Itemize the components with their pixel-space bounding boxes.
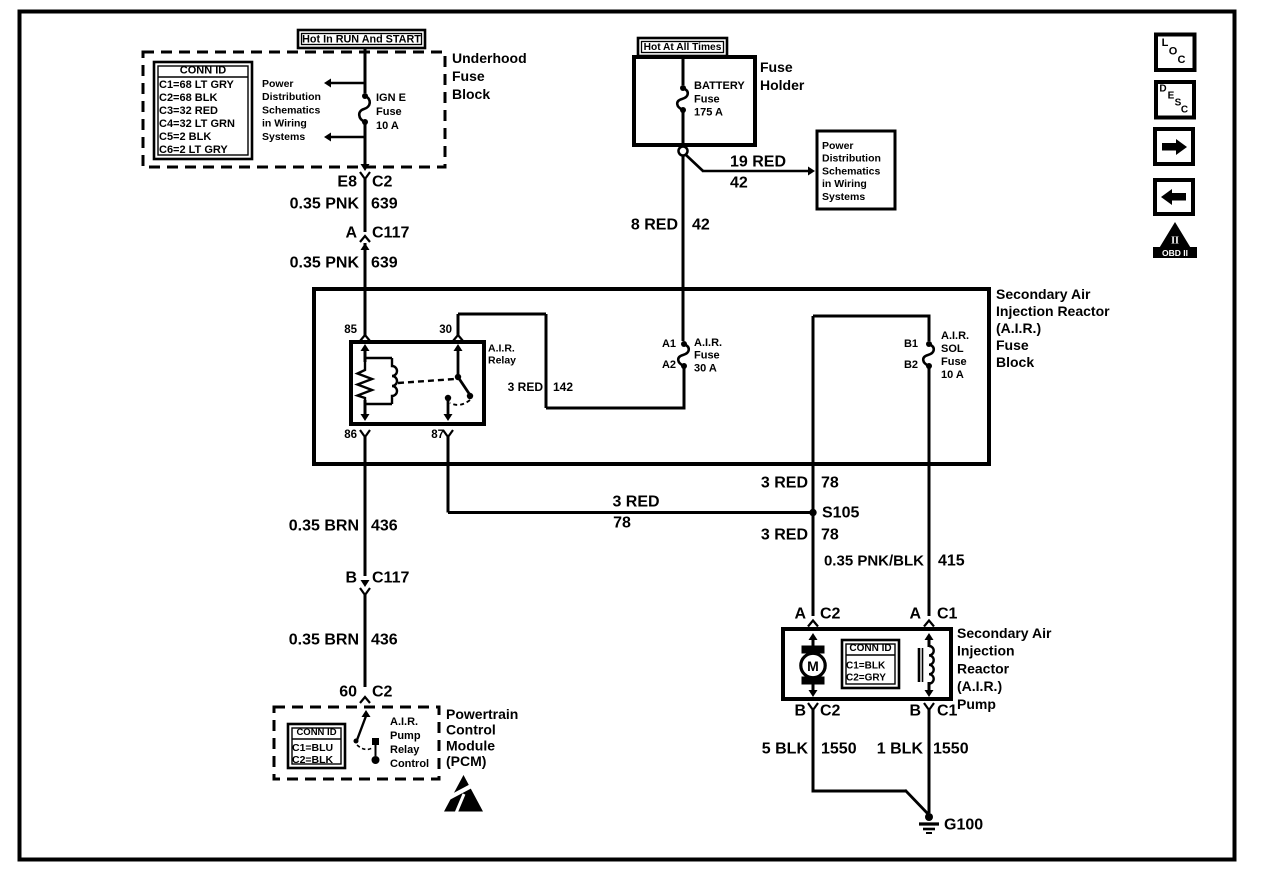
svg-text:Reactor: Reactor [957,660,1010,676]
svg-text:C: C [1181,105,1188,116]
svg-text:3 RED: 3 RED [612,494,659,511]
svg-text:Block: Block [452,86,490,102]
svg-text:A: A [909,606,921,623]
svg-text:B: B [794,703,806,720]
svg-text:3 RED: 3 RED [761,475,808,492]
svg-text:Fuse: Fuse [941,356,967,368]
svg-text:A.I.R.: A.I.R. [694,337,722,349]
svg-text:A.I.R.: A.I.R. [941,330,969,342]
svg-text:IGN E: IGN E [376,92,406,104]
svg-text:436: 436 [371,632,398,649]
svg-text:C2: C2 [372,684,393,701]
svg-text:10 A: 10 A [941,369,964,381]
svg-text:C2: C2 [820,606,841,623]
svg-text:CONN ID: CONN ID [180,65,227,77]
svg-text:C2=68 BLK: C2=68 BLK [159,92,217,104]
svg-text:5 BLK: 5 BLK [762,741,809,758]
svg-text:C1=BLK: C1=BLK [846,661,886,672]
svg-text:142: 142 [553,380,573,394]
svg-text:639: 639 [371,196,398,213]
svg-text:Fuse: Fuse [694,93,720,105]
svg-text:Hot In RUN And START: Hot In RUN And START [302,34,421,46]
svg-text:Block: Block [996,354,1034,370]
svg-text:0.35 BRN: 0.35 BRN [289,518,359,535]
svg-text:BATTERY: BATTERY [694,80,745,92]
svg-text:(A.I.R.): (A.I.R.) [996,320,1041,336]
svg-text:Pump: Pump [957,696,996,712]
svg-text:C1=68 LT GRY: C1=68 LT GRY [159,79,235,91]
svg-text:Fuse: Fuse [376,106,402,118]
svg-text:C6=2 LT GRY: C6=2 LT GRY [159,144,228,156]
svg-text:639: 639 [371,255,398,272]
svg-text:A: A [794,606,806,623]
svg-text:Secondary Air: Secondary Air [996,286,1091,302]
svg-text:E8: E8 [337,174,357,191]
svg-text:86: 86 [344,429,357,441]
svg-text:Control: Control [390,758,429,770]
svg-text:A.I.R.: A.I.R. [488,343,515,355]
svg-text:C2: C2 [820,703,841,720]
svg-text:C2=GRY: C2=GRY [846,673,886,684]
svg-text:175 A: 175 A [694,107,723,119]
svg-text:CONN ID: CONN ID [296,727,336,738]
svg-text:C117: C117 [372,570,409,587]
svg-text:S105: S105 [822,505,859,522]
svg-text:Power: Power [822,140,854,152]
svg-text:O: O [1169,46,1178,58]
svg-text:A: A [345,225,357,242]
svg-text:C3=32 RED: C3=32 RED [159,105,218,117]
svg-text:A.I.R.: A.I.R. [390,716,418,728]
svg-text:Schematics: Schematics [262,104,321,116]
svg-text:19 RED: 19 RED [730,154,786,171]
svg-text:1 BLK: 1 BLK [877,741,924,758]
svg-text:C1=BLU: C1=BLU [292,742,333,754]
svg-text:3 RED: 3 RED [761,527,808,544]
svg-text:in Wiring: in Wiring [262,118,307,130]
svg-text:Schematics: Schematics [822,165,881,177]
svg-text:Module: Module [446,737,495,753]
svg-text:42: 42 [692,217,710,234]
svg-text:42: 42 [730,175,748,192]
svg-text:78: 78 [821,475,839,492]
svg-text:Hot At All Times: Hot At All Times [644,42,722,53]
svg-text:OBD II: OBD II [1162,248,1188,258]
svg-text:Fuse: Fuse [452,68,485,84]
svg-text:60: 60 [339,684,357,701]
svg-text:II: II [1171,236,1179,247]
svg-text:87: 87 [431,429,444,441]
svg-text:E: E [1168,91,1175,102]
svg-text:B1: B1 [904,338,918,350]
svg-text:436: 436 [371,518,398,535]
svg-text:in Wiring: in Wiring [822,178,867,190]
svg-text:C5=2 BLK: C5=2 BLK [159,131,211,143]
svg-text:B: B [345,570,357,587]
svg-text:CONN ID: CONN ID [849,643,891,654]
svg-text:C2: C2 [372,174,393,191]
svg-text:8 RED: 8 RED [631,217,678,234]
svg-text:Fuse: Fuse [694,350,720,362]
svg-text:Relay: Relay [488,355,516,367]
svg-text:1550: 1550 [933,741,969,758]
svg-text:(PCM): (PCM) [446,753,486,769]
svg-text:10 A: 10 A [376,120,399,132]
svg-text:(A.I.R.): (A.I.R.) [957,678,1002,694]
svg-text:SOL: SOL [941,343,964,355]
svg-text:Pump: Pump [390,730,421,742]
svg-text:1550: 1550 [821,741,857,758]
svg-text:Systems: Systems [822,191,865,203]
svg-text:Holder: Holder [760,77,805,93]
svg-text:78: 78 [613,515,631,532]
svg-text:C1: C1 [937,703,958,720]
svg-text:L: L [1162,37,1169,49]
svg-text:0.35 PNK/BLK: 0.35 PNK/BLK [824,553,924,570]
svg-text:G100: G100 [944,817,983,834]
svg-text:B2: B2 [904,359,918,371]
svg-text:0.35 PNK: 0.35 PNK [290,196,360,213]
svg-text:Relay: Relay [390,744,420,756]
svg-text:Distribution: Distribution [822,153,881,165]
svg-text:Power: Power [262,78,294,90]
svg-text:B: B [909,703,921,720]
svg-text:M: M [807,658,819,674]
svg-text:30: 30 [439,324,452,336]
svg-text:415: 415 [938,553,965,570]
svg-text:Secondary Air: Secondary Air [957,625,1052,641]
svg-text:Underhood: Underhood [452,50,527,66]
svg-text:Fuse: Fuse [996,337,1029,353]
svg-text:Injection Reactor: Injection Reactor [996,303,1110,319]
svg-text:30 A: 30 A [694,362,717,374]
svg-text:Fuse: Fuse [760,59,793,75]
svg-text:Powertrain: Powertrain [446,706,518,722]
svg-text:C2=BLK: C2=BLK [292,754,334,766]
svg-text:C117: C117 [372,225,409,242]
svg-text:0.35 PNK: 0.35 PNK [290,255,360,272]
svg-text:Injection: Injection [957,643,1015,659]
svg-text:Systems: Systems [262,131,305,143]
svg-text:A1: A1 [662,338,676,350]
svg-text:C4=32 LT GRN: C4=32 LT GRN [159,118,235,130]
svg-text:C1: C1 [937,606,958,623]
svg-text:C: C [1178,54,1186,66]
svg-text:Distribution: Distribution [262,91,321,103]
svg-text:85: 85 [344,324,357,336]
svg-text:A2: A2 [662,359,676,371]
svg-text:Control: Control [446,722,496,738]
svg-text:78: 78 [821,527,839,544]
svg-text:D: D [1159,84,1166,95]
svg-text:3 RED: 3 RED [508,380,544,394]
svg-text:0.35 BRN: 0.35 BRN [289,632,359,649]
